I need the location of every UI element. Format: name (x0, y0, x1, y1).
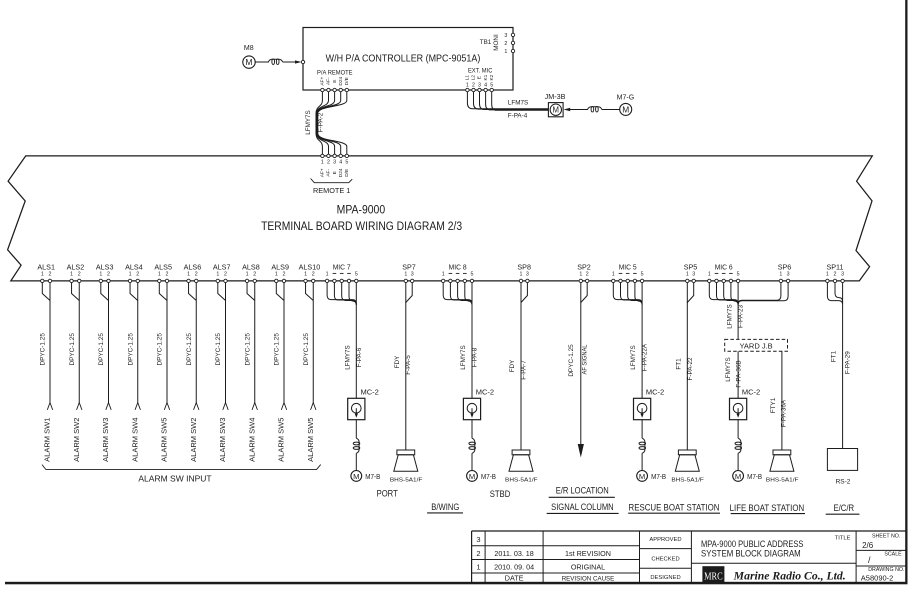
svg-text:3: 3 (787, 271, 790, 277)
svg-text:1: 1 (99, 271, 102, 277)
svg-text:2: 2 (107, 271, 110, 277)
svg-text:YARD J.B: YARD J.B (739, 341, 772, 350)
node SP2 terminals (579, 279, 589, 282)
svg-text:2: 2 (136, 271, 139, 277)
wire MIC 6 merged to YARD J.B (cable LFMY7S F-PA-23) (737, 305, 739, 340)
svg-text:ALS2: ALS2 (67, 262, 85, 271)
svg-text:5: 5 (471, 271, 474, 277)
node MIC 6 terminals (708, 279, 740, 282)
wire SP2 AF signal arrow (cable DPYC-1.25 AF SIGNAL) (578, 303, 584, 458)
external connector fork ALS5 (164, 403, 169, 410)
svg-text:2: 2 (312, 271, 315, 277)
REMOTE 1 pin numbers (321, 159, 348, 165)
svg-text:1: 1 (158, 271, 161, 277)
node ALS5 terminals (158, 279, 169, 282)
company logo MRC (702, 566, 724, 582)
svg-text:M: M (469, 472, 475, 481)
junction box JM-3B (545, 92, 566, 117)
svg-text:D24: D24 (338, 76, 344, 85)
remote station box RS-2 (827, 449, 857, 486)
svg-text:ALARM SW4: ALARM SW4 (247, 418, 256, 462)
svg-text:4: 4 (339, 159, 342, 165)
svg-text:ALS5: ALS5 (154, 262, 172, 271)
node ALS1 terminals (41, 279, 52, 282)
svg-text:ALARM SW3: ALARM SW3 (101, 418, 110, 462)
svg-text:ALS7: ALS7 (213, 262, 231, 271)
svg-text:M: M (245, 57, 252, 67)
svg-text:ALARM SW5: ALARM SW5 (306, 418, 315, 462)
svg-text:LFMY7S: LFMY7S (460, 345, 467, 370)
terminal group ALS6 (184, 262, 202, 277)
svg-text:1: 1 (187, 271, 190, 277)
station label E/R LOCATION (549, 486, 615, 498)
node ALS8 terminals (245, 279, 256, 282)
wire M7-G to JM-3B with arrow and coil (564, 106, 620, 112)
terminal group SP8 (517, 262, 531, 277)
svg-text:L2: L2 (471, 75, 477, 81)
node ALS2 terminals (70, 279, 81, 282)
node SP11 terminals (826, 279, 845, 282)
svg-text:MIC 7: MIC 7 (333, 262, 351, 271)
svg-text:F-PA-4: F-PA-4 (508, 112, 528, 119)
node MIC 7 terminals (325, 279, 358, 282)
svg-text:BHS-5A1/F: BHS-5A1/F (671, 478, 704, 484)
svg-text:B/WING: B/WING (431, 502, 459, 512)
wire ALS5 to alarm switch (159, 282, 167, 402)
svg-text:1: 1 (579, 271, 582, 277)
microphone controller MC-2 (348, 388, 379, 420)
svg-text:MIC 8: MIC 8 (449, 262, 467, 271)
terminal group ALS2 (67, 262, 85, 277)
svg-text:ALS4: ALS4 (125, 262, 143, 271)
svg-text:2: 2 (327, 159, 330, 165)
microphone M7-B (733, 471, 763, 482)
terminal group MIC 7 (326, 262, 358, 277)
svg-text:1: 1 (304, 271, 307, 277)
svg-text:1: 1 (70, 271, 73, 277)
svg-text:AF SIGNAL: AF SIGNAL (581, 344, 588, 374)
microphone M7-G (617, 95, 635, 116)
node ALS4 terminals (128, 279, 139, 282)
drawing number cell (861, 567, 905, 582)
motor M8 (243, 45, 255, 68)
wire coil (cable slack) (735, 420, 742, 471)
svg-text:M7-B: M7-B (747, 472, 762, 481)
external connector fork ALS7 (223, 403, 228, 410)
svg-text:1: 1 (321, 159, 324, 165)
svg-text:MC-2: MC-2 (476, 388, 494, 397)
svg-text:M: M (639, 472, 645, 481)
svg-text:RS-2: RS-2 (836, 479, 851, 486)
svg-text:2: 2 (224, 271, 227, 277)
svg-text:AF-: AF- (326, 77, 332, 85)
node REMOTE 1 terminals (321, 154, 349, 157)
station label LIFE BOAT STATION (730, 503, 805, 514)
svg-text:EXT. MIC: EXT. MIC (468, 67, 493, 74)
svg-text:MC-2: MC-2 (646, 388, 664, 397)
svg-text:K2: K2 (489, 74, 495, 80)
wire ALS2 to alarm switch (72, 282, 80, 402)
REMOTE 1 brace (311, 179, 353, 183)
wire MIC 7 to MC-2 (cable LFMY7S F-PA-6) (355, 305, 357, 399)
wire MIC 7 pins merge (327, 282, 356, 305)
svg-text:FDY: FDY (509, 359, 516, 372)
svg-text:MPA-9000 PUBLIC ADDRESS: MPA-9000 PUBLIC ADDRESS (701, 539, 804, 549)
node SP8 terminals (519, 279, 529, 282)
terminal group ALS3 (96, 262, 114, 277)
svg-text:M7-B: M7-B (481, 472, 496, 481)
svg-text:JM-3B: JM-3B (545, 92, 566, 101)
wire SP6 joins MIC 6 bundle (738, 282, 788, 304)
svg-text:/: / (868, 555, 871, 565)
terminal board banner outline (8, 156, 873, 281)
wire coil (cable slack) (353, 420, 360, 471)
svg-text:ALARM SW4: ALARM SW4 (130, 418, 139, 462)
P/A REMOTE terminals 1-5 (321, 88, 349, 91)
svg-text:MIC 6: MIC 6 (715, 262, 733, 271)
svg-text:1: 1 (520, 271, 523, 277)
svg-text:ALARM SW2: ALARM SW2 (72, 418, 81, 462)
svg-text:D/E: D/E (344, 169, 350, 177)
svg-text:FTY1: FTY1 (770, 397, 777, 413)
terminal group ALS8 (242, 262, 260, 277)
svg-text:M: M (553, 106, 560, 115)
wire SP7 to speaker (cable FDY F-PA-5) (405, 303, 407, 451)
wire SP2 pins merge (581, 282, 587, 303)
sheet bottom border (5, 582, 908, 585)
svg-text:F-PA-5: F-PA-5 (405, 355, 412, 375)
P/A REMOTE pin name labels (320, 76, 350, 85)
svg-text:SYSTEM BLOCK DIAGRAM: SYSTEM BLOCK DIAGRAM (701, 548, 801, 558)
svg-text:ALARM SW INPUT: ALARM SW INPUT (138, 474, 211, 484)
svg-text:AF+: AF+ (320, 77, 326, 86)
svg-text:ALS9: ALS9 (271, 262, 289, 271)
svg-text:5: 5 (355, 271, 358, 277)
svg-text:DESIGNED: DESIGNED (650, 575, 680, 581)
svg-text:2010. 09. 04: 2010. 09. 04 (494, 562, 534, 571)
svg-text:ORIGINAL: ORIGINAL (571, 562, 605, 571)
scale cell (868, 551, 902, 565)
svg-text:DATE: DATE (505, 574, 524, 583)
svg-text:E: E (332, 80, 338, 83)
wire M8 to controller with coil (255, 59, 304, 64)
svg-text:DPYC-1.25: DPYC-1.25 (40, 333, 47, 366)
svg-text:F-PA-36A: F-PA-36A (780, 399, 787, 427)
node ALS10 terminals (304, 279, 315, 282)
svg-text:5: 5 (641, 271, 644, 277)
external connector fork ALS2 (77, 403, 82, 410)
terminal group ALS9 (271, 262, 289, 277)
external connector fork ALS6 (194, 403, 199, 410)
svg-text:A58090-2: A58090-2 (861, 574, 894, 583)
svg-text:2: 2 (253, 271, 256, 277)
svg-text:FDY: FDY (394, 355, 401, 368)
microphone controller MC-2 (634, 388, 665, 420)
svg-text:SP8: SP8 (517, 262, 531, 271)
svg-text:M: M (622, 104, 629, 114)
svg-text:2/6: 2/6 (862, 541, 874, 550)
svg-text:1: 1 (612, 271, 615, 277)
wire SP5 to speaker (cable FT1 F-PA-22) (686, 303, 688, 451)
svg-text:3: 3 (476, 535, 480, 544)
wire YARD J.B to speaker (cable FTY1 F-PA-36A) (781, 351, 783, 450)
svg-text:M: M (735, 472, 741, 481)
svg-text:L1: L1 (465, 75, 471, 81)
node MIC 5 terminals (612, 279, 644, 282)
wire ALS7 to alarm switch (218, 282, 226, 402)
svg-text:AF+: AF+ (320, 168, 326, 177)
svg-text:D/E: D/E (344, 77, 350, 85)
svg-text:STBD: STBD (490, 489, 511, 499)
terminal group ALS4 (125, 262, 143, 277)
svg-text:LFMY7S: LFMY7S (344, 345, 351, 370)
svg-text:Marine Radio Co., Ltd.: Marine Radio Co., Ltd. (733, 571, 846, 583)
svg-text:F-PA-7: F-PA-7 (521, 360, 528, 380)
microphone M7-B (351, 471, 381, 482)
station label B/WING (427, 502, 463, 513)
svg-text:SIGNAL COLUMN: SIGNAL COLUMN (551, 502, 614, 512)
svg-text:F-PA-36B: F-PA-36B (735, 360, 742, 387)
external connector fork ALS8 (252, 403, 257, 410)
sheet number cell (862, 534, 900, 550)
terminal group ALS10 (299, 262, 321, 277)
wire ALS6 to alarm switch (189, 282, 197, 402)
svg-text:DPYC-1.25: DPYC-1.25 (244, 333, 251, 366)
svg-text:F-PA-23: F-PA-23 (738, 305, 745, 328)
terminal group SP6 (778, 262, 792, 277)
svg-text:3: 3 (692, 271, 695, 277)
svg-text:ALS8: ALS8 (242, 262, 260, 271)
horn speaker BHS-5A1/F (671, 450, 704, 484)
node SP6 terminals (779, 279, 790, 282)
svg-text:M7-B: M7-B (365, 472, 380, 481)
svg-text:ALARM SW2: ALARM SW2 (189, 418, 198, 462)
svg-text:2: 2 (78, 271, 81, 277)
REMOTE 1 pin name labels (320, 168, 350, 177)
svg-text:3: 3 (526, 271, 529, 277)
svg-text:MRC: MRC (704, 570, 723, 582)
svg-text:E: E (332, 171, 338, 174)
svg-text:2: 2 (283, 271, 286, 277)
external connector fork ALS4 (135, 403, 140, 410)
microphone controller MC-2 (730, 388, 761, 420)
terminal group SP11 (826, 262, 844, 277)
svg-text:1: 1 (779, 271, 782, 277)
wire SP8 to speaker (cable FDY F-PA-7) (520, 303, 522, 451)
svg-text:D24: D24 (338, 168, 344, 177)
svg-text:ALS1: ALS1 (37, 262, 55, 271)
svg-text:5: 5 (737, 271, 740, 277)
MONI pin numbers (504, 33, 507, 55)
svg-text:DPYC-1.25: DPYC-1.25 (186, 333, 193, 366)
EXT. MIC pin name labels (465, 74, 495, 80)
external connector fork ALS10 (311, 403, 316, 410)
svg-text:E/C/R: E/C/R (834, 503, 855, 513)
node ALS7 terminals (216, 279, 227, 282)
wire ALS9 to alarm switch (276, 282, 284, 402)
svg-text:BHS-5A1/F: BHS-5A1/F (390, 478, 423, 484)
svg-text:LIFE BOAT STATION: LIFE BOAT STATION (730, 503, 805, 513)
EXT. MIC pin numbers 1-5 (466, 83, 493, 89)
wire SP7 pins merge (406, 282, 412, 303)
svg-text:SHEET NO.: SHEET NO. (872, 534, 900, 540)
svg-text:F-PA-22: F-PA-22 (687, 357, 694, 380)
wire SP11 pins merge (827, 282, 842, 304)
EXT. MIC terminals (466, 88, 494, 91)
station label SIGNAL COLUMN (547, 502, 619, 513)
svg-text:BHS-5A1/F: BHS-5A1/F (505, 478, 538, 484)
svg-text:2: 2 (504, 41, 507, 47)
svg-text:ALARM SW5: ALARM SW5 (160, 418, 169, 462)
svg-text:TB1: TB1 (480, 39, 492, 46)
node SP7 terminals (404, 279, 414, 282)
svg-text:1: 1 (326, 271, 329, 277)
svg-text:TERMINAL BOARD WIRING DIAGRAM: TERMINAL BOARD WIRING DIAGRAM 2/3 (261, 219, 462, 233)
svg-text:F-PA-8: F-PA-8 (471, 347, 478, 367)
ALARM SW INPUT brace (42, 465, 321, 470)
svg-text:DPYC-1.25: DPYC-1.25 (98, 333, 105, 366)
svg-text:1: 1 (129, 271, 132, 277)
terminal group SP5 (684, 262, 698, 277)
svg-text:DPYC-1.25: DPYC-1.25 (568, 344, 575, 377)
junction box YARD J.B (725, 339, 788, 351)
svg-text:ALARM SW1: ALARM SW1 (43, 418, 52, 462)
svg-text:1: 1 (826, 271, 829, 277)
svg-text:2: 2 (49, 271, 52, 277)
svg-text:REMOTE 1: REMOTE 1 (313, 186, 350, 195)
svg-text:3: 3 (841, 271, 844, 277)
svg-text:1: 1 (466, 83, 469, 89)
wire ALS3 to alarm switch (101, 282, 109, 402)
wire SP8 pins merge (521, 282, 527, 303)
svg-text:CHECKED: CHECKED (651, 557, 679, 563)
svg-text:BHS-5A1/F: BHS-5A1/F (766, 478, 799, 484)
microphone controller MC-2 (463, 388, 494, 420)
node MIC 8 terminals (442, 279, 474, 282)
svg-text:DPYC-1.25: DPYC-1.25 (69, 333, 76, 366)
svg-text:MONI: MONI (493, 34, 500, 51)
node ALS9 terminals (275, 279, 286, 282)
station label RESCUE BOAT STATION (628, 503, 720, 514)
svg-text:1: 1 (708, 271, 711, 277)
svg-text:M7-G: M7-G (617, 95, 635, 102)
svg-text:4: 4 (484, 83, 487, 89)
svg-text:3: 3 (411, 271, 414, 277)
svg-text:5: 5 (345, 159, 348, 165)
svg-text:FT1: FT1 (831, 350, 838, 362)
svg-text:2: 2 (166, 271, 169, 277)
svg-text:1: 1 (404, 271, 407, 277)
external connector fork ALS3 (106, 403, 111, 410)
svg-text:APPROVED: APPROVED (649, 537, 681, 543)
svg-text:MC-2: MC-2 (361, 388, 379, 397)
svg-text:RESCUE BOAT STATION: RESCUE BOAT STATION (629, 503, 720, 513)
svg-text:SCALE: SCALE (884, 551, 902, 557)
svg-text:F-PA-6: F-PA-6 (356, 347, 363, 367)
station label E/C/R (826, 503, 860, 514)
svg-text:DPYC-1.25: DPYC-1.25 (127, 333, 134, 366)
svg-text:M8: M8 (244, 45, 254, 52)
wire bus EXT.MIC to JM-3B (cable LFM7S F-PA-4) (467, 92, 548, 111)
svg-text:MPA-9000: MPA-9000 (337, 202, 386, 216)
terminal group MIC 6 (708, 262, 740, 277)
wire MIC 8 to MC-2 (cable LFMY7S F-PA-8) (471, 305, 473, 399)
wire ALS10 to alarm switch (306, 282, 314, 402)
svg-text:M: M (353, 472, 359, 481)
node SP5 terminals (686, 279, 696, 282)
revision table texts (476, 535, 614, 583)
svg-text:DPYC-1.25: DPYC-1.25 (303, 333, 310, 366)
terminal group MIC 8 (442, 262, 474, 277)
svg-text:SP2: SP2 (577, 262, 591, 271)
svg-text:TITLE: TITLE (835, 536, 851, 542)
wire MIC 5 pins merge (613, 282, 642, 305)
svg-text:LFMY7S: LFMY7S (630, 345, 637, 370)
svg-text:LFMY7S: LFMY7S (725, 357, 732, 382)
node ALS3 terminals (99, 279, 110, 282)
svg-text:2: 2 (195, 271, 198, 277)
drawing title text (701, 536, 851, 559)
sheet right border (905, 0, 907, 584)
external connector fork ALS1 (47, 403, 52, 410)
external connector fork ALS9 (281, 403, 286, 410)
svg-text:F-PA-29: F-PA-29 (844, 351, 851, 374)
svg-text:ALS10: ALS10 (299, 262, 321, 271)
svg-text:SP5: SP5 (684, 262, 698, 271)
svg-text:DPYC-1.25: DPYC-1.25 (274, 333, 281, 366)
svg-text:M7-B: M7-B (651, 472, 666, 481)
svg-text:5: 5 (490, 83, 493, 89)
svg-text:1: 1 (246, 271, 249, 277)
svg-text:MC-2: MC-2 (742, 388, 760, 397)
svg-text:2: 2 (472, 83, 475, 89)
svg-text:LFMY7S: LFMY7S (305, 110, 312, 135)
svg-text:3: 3 (478, 83, 481, 89)
svg-text:F-PA-2: F-PA-2 (318, 112, 325, 132)
svg-text:LFM7S: LFM7S (508, 100, 528, 107)
approval labels (649, 537, 681, 581)
title block frame (472, 531, 906, 583)
horn speaker BHS-5A1/F (390, 450, 423, 484)
svg-text:1st REVISION: 1st REVISION (565, 549, 611, 558)
svg-text:1: 1 (275, 271, 278, 277)
svg-text:SP11: SP11 (826, 262, 843, 271)
node ALS6 terminals (187, 279, 198, 282)
svg-text:PORT: PORT (377, 488, 398, 498)
svg-text:ALARM SW3: ALARM SW3 (218, 418, 227, 462)
svg-text:ALS6: ALS6 (184, 262, 202, 271)
svg-text:1: 1 (442, 271, 445, 277)
wire MIC 5 to MC-2 (cable LFMY7S F-PA-22A) (641, 305, 643, 399)
svg-text:3: 3 (504, 33, 507, 39)
svg-text:2: 2 (834, 271, 837, 277)
svg-text:E/R LOCATION: E/R LOCATION (556, 486, 609, 496)
wire SP11 to RS-2 (cable FT1 F-PA-29) (842, 305, 844, 449)
svg-text:1: 1 (216, 271, 219, 277)
terminal group SP2 (577, 262, 591, 277)
wire YARD J.B to MC-2 (cable LFMY7S F-PA-36B) (737, 351, 739, 398)
svg-text:K1: K1 (483, 74, 489, 80)
svg-text:AF-: AF- (326, 169, 332, 177)
svg-text:2011. 03. 18: 2011. 03. 18 (494, 549, 533, 558)
svg-text:ALARM SW5: ALARM SW5 (277, 418, 286, 462)
microphone M7-B (637, 471, 667, 482)
terminal group ALS1 (37, 262, 55, 277)
svg-text:2: 2 (476, 549, 480, 558)
svg-text:3: 3 (333, 159, 336, 165)
svg-text:ALS3: ALS3 (96, 262, 114, 271)
wire ALS8 to alarm switch (247, 282, 255, 402)
